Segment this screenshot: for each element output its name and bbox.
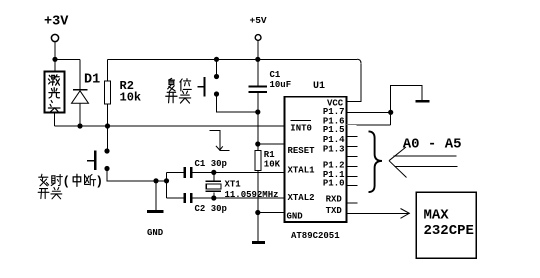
node junction P1.7 <box>388 110 393 115</box>
node junction caps vertical <box>164 178 169 183</box>
svg-text:RESET: RESET <box>288 146 316 156</box>
svg-text:RXD: RXD <box>326 195 343 205</box>
svg-text:P1.5: P1.5 <box>323 125 345 135</box>
IC U1 AT89C2051 <box>285 81 347 241</box>
pin stub P1.4 <box>347 145 358 147</box>
pin stub P1.0 <box>347 185 358 187</box>
diode D1 <box>72 59 101 126</box>
svg-text:P1.3: P1.3 <box>323 145 345 155</box>
node junction R1/GND row <box>255 210 260 215</box>
svg-text:XTAL1: XTAL1 <box>288 166 316 176</box>
resistor R1 <box>255 144 281 213</box>
capacitor C1 10uF <box>249 59 292 144</box>
pin stub P1.5 <box>347 135 358 137</box>
annotation arrow to crystal <box>210 131 230 151</box>
wire antenna riser <box>391 86 422 126</box>
node junction R2/rail <box>105 123 110 128</box>
svg-text:D1: D1 <box>84 73 100 88</box>
wire +3V vertical down to laser box <box>54 42 56 72</box>
svg-text:+5V: +5V <box>250 15 267 26</box>
ground below R1 <box>252 213 265 243</box>
wire INT0 rail <box>55 125 285 127</box>
svg-text:10k: 10k <box>120 91 142 105</box>
resistor R2 <box>105 59 142 126</box>
svg-text:C2 30p: C2 30p <box>195 204 227 214</box>
wire +5V rail horizontal to VCC corner <box>108 59 362 101</box>
node junction rail/C1 <box>255 57 260 62</box>
svg-text:MAX: MAX <box>424 208 450 224</box>
svg-text:+3V: +3V <box>44 15 69 30</box>
ground GND left <box>147 181 164 238</box>
pin label INT0 <box>290 121 312 134</box>
svg-text:AT89C2051: AT89C2051 <box>291 231 340 241</box>
svg-text:A0 - A5: A0 - A5 <box>403 136 462 152</box>
pin stub P1.2 <box>347 165 358 167</box>
wire RESET row <box>258 143 285 145</box>
wire laser box bottom to INT0 rail <box>54 113 56 127</box>
wire GND row to IC <box>258 212 285 214</box>
capacitor C2 30p <box>167 193 285 214</box>
crystal XT1 <box>206 172 279 200</box>
laser head label 激光头 <box>48 75 60 112</box>
svg-text:P1.0: P1.0 <box>323 179 345 189</box>
svg-text:GND: GND <box>147 228 164 238</box>
wire +5V terminal down to rail <box>257 40 259 59</box>
node junction D1/rail <box>77 123 82 128</box>
pin stub P1.1 <box>347 175 358 177</box>
wire +3V junction to D1 top <box>55 58 80 60</box>
+3V terminal circle <box>51 34 58 41</box>
svg-text:): ) <box>96 175 104 189</box>
wire caps common vertical <box>166 172 168 198</box>
svg-text:(: ( <box>63 175 71 189</box>
svg-text:10K: 10K <box>264 159 281 169</box>
bus arrowhead A0-A5 <box>389 147 458 178</box>
svg-text:GND: GND <box>287 212 304 222</box>
+5V terminal circle <box>255 35 261 41</box>
node junction rail/reset-switch <box>214 57 219 62</box>
svg-text:XT1: XT1 <box>225 180 242 190</box>
pin stub RXD <box>347 202 358 204</box>
wire TXD with arrow <box>347 209 410 219</box>
svg-text:232CPE: 232CPE <box>424 223 474 239</box>
svg-text:INT0: INT0 <box>290 124 312 134</box>
svg-text:P1.4: P1.4 <box>323 135 345 145</box>
node junction +3V <box>52 57 57 62</box>
node junction GND tap <box>153 178 158 183</box>
node +5V supply label <box>250 15 267 26</box>
laser head box (激光头) <box>45 72 65 113</box>
capacitor C1 30p <box>167 159 285 178</box>
svg-text:R1: R1 <box>264 150 275 160</box>
node junction RESET/R1 <box>255 141 260 146</box>
svg-text:XTAL2: XTAL2 <box>288 193 315 203</box>
node junction XT1 top <box>211 170 216 175</box>
svg-text:10uF: 10uF <box>270 80 292 90</box>
reset switch (复位开关) <box>166 59 258 112</box>
node junction C1 bottom / switch <box>255 109 260 114</box>
svg-text:C1 30p: C1 30p <box>195 159 227 169</box>
svg-text:U1: U1 <box>313 81 325 92</box>
MAX232 box <box>416 192 476 258</box>
node +3V supply label <box>44 15 69 30</box>
pin stub P1.3 <box>347 155 358 157</box>
wire P1.7 <box>347 111 391 113</box>
brace for P1.5-P1.0 <box>369 131 383 192</box>
wire P1.6 <box>347 124 357 126</box>
svg-text:TXD: TXD <box>326 206 343 216</box>
svg-text:C1: C1 <box>270 70 281 80</box>
ground bar top right <box>416 100 430 103</box>
emission switch (发射(中断)开关) <box>38 126 166 199</box>
node junction XT1 bottom <box>211 195 216 200</box>
